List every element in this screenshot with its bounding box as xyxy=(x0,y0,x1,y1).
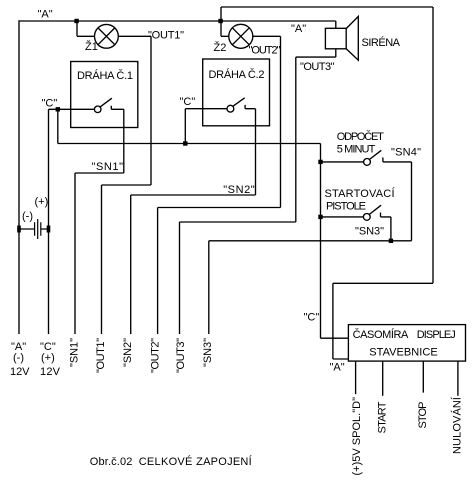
svg-text:(+)5V SPOL."D": (+)5V SPOL."D" xyxy=(351,397,363,476)
svg-text:"A": "A" xyxy=(330,362,345,374)
svg-text:Ž1: Ž1 xyxy=(85,40,98,53)
svg-text:PISTOLE: PISTOLE xyxy=(326,201,366,213)
svg-text:DRÁHA Č.1: DRÁHA Č.1 xyxy=(77,69,133,82)
svg-text:(+): (+) xyxy=(35,196,49,208)
svg-text:12V: 12V xyxy=(10,366,30,378)
svg-text:(+): (+) xyxy=(41,352,55,364)
svg-text:"SN1": "SN1" xyxy=(92,161,124,173)
svg-text:"C": "C" xyxy=(42,97,58,109)
svg-text:ZAPOJENÍ: ZAPOJENÍ xyxy=(196,455,253,468)
svg-text:"SN1": "SN1" xyxy=(69,338,81,367)
svg-text:STAVEBNICE: STAVEBNICE xyxy=(369,347,437,359)
svg-text:Ž2: Ž2 xyxy=(214,41,227,54)
svg-text:"OUT2": "OUT2" xyxy=(149,338,161,373)
svg-text:"SN2": "SN2" xyxy=(122,338,134,367)
svg-text:"OUT1": "OUT1" xyxy=(95,338,107,373)
svg-text:"OUT1": "OUT1" xyxy=(148,30,184,42)
svg-text:"SN4": "SN4" xyxy=(391,146,421,158)
svg-text:STOP: STOP xyxy=(417,402,429,429)
svg-text:ODPOČET: ODPOČET xyxy=(337,130,384,143)
svg-text:"SN3": "SN3" xyxy=(355,226,384,238)
svg-text:NULOVÁNÍ: NULOVÁNÍ xyxy=(451,396,464,454)
svg-text:STARTOVACÍ: STARTOVACÍ xyxy=(325,187,396,200)
svg-text:"SN2": "SN2" xyxy=(223,184,255,196)
svg-text:CELKOVÉ: CELKOVÉ xyxy=(139,455,193,468)
svg-text:5 MINUT: 5 MINUT xyxy=(337,143,376,155)
svg-text:DRÁHA Č.2: DRÁHA Č.2 xyxy=(209,68,265,81)
svg-text:"A": "A" xyxy=(38,9,53,21)
svg-text:"OUT3": "OUT3" xyxy=(175,338,187,373)
svg-text:"C": "C" xyxy=(304,312,320,324)
svg-text:12V: 12V xyxy=(40,366,61,378)
svg-text:"A": "A" xyxy=(291,23,306,35)
svg-text:DISPLEJ: DISPLEJ xyxy=(417,329,456,341)
svg-text:SIRÉNA: SIRÉNA xyxy=(362,36,401,49)
svg-text:"OUT2": "OUT2" xyxy=(249,45,281,57)
svg-text:START: START xyxy=(377,401,389,433)
svg-text:ČASOMÍRA: ČASOMÍRA xyxy=(353,328,409,341)
svg-text:(-): (-) xyxy=(22,211,33,223)
svg-text:"OUT3": "OUT3" xyxy=(300,61,335,73)
svg-text:"SN3": "SN3" xyxy=(202,338,214,367)
svg-text:"C": "C" xyxy=(180,96,196,108)
svg-text:Obr.č.02: Obr.č.02 xyxy=(90,456,133,468)
svg-text:(-): (-) xyxy=(13,352,24,364)
